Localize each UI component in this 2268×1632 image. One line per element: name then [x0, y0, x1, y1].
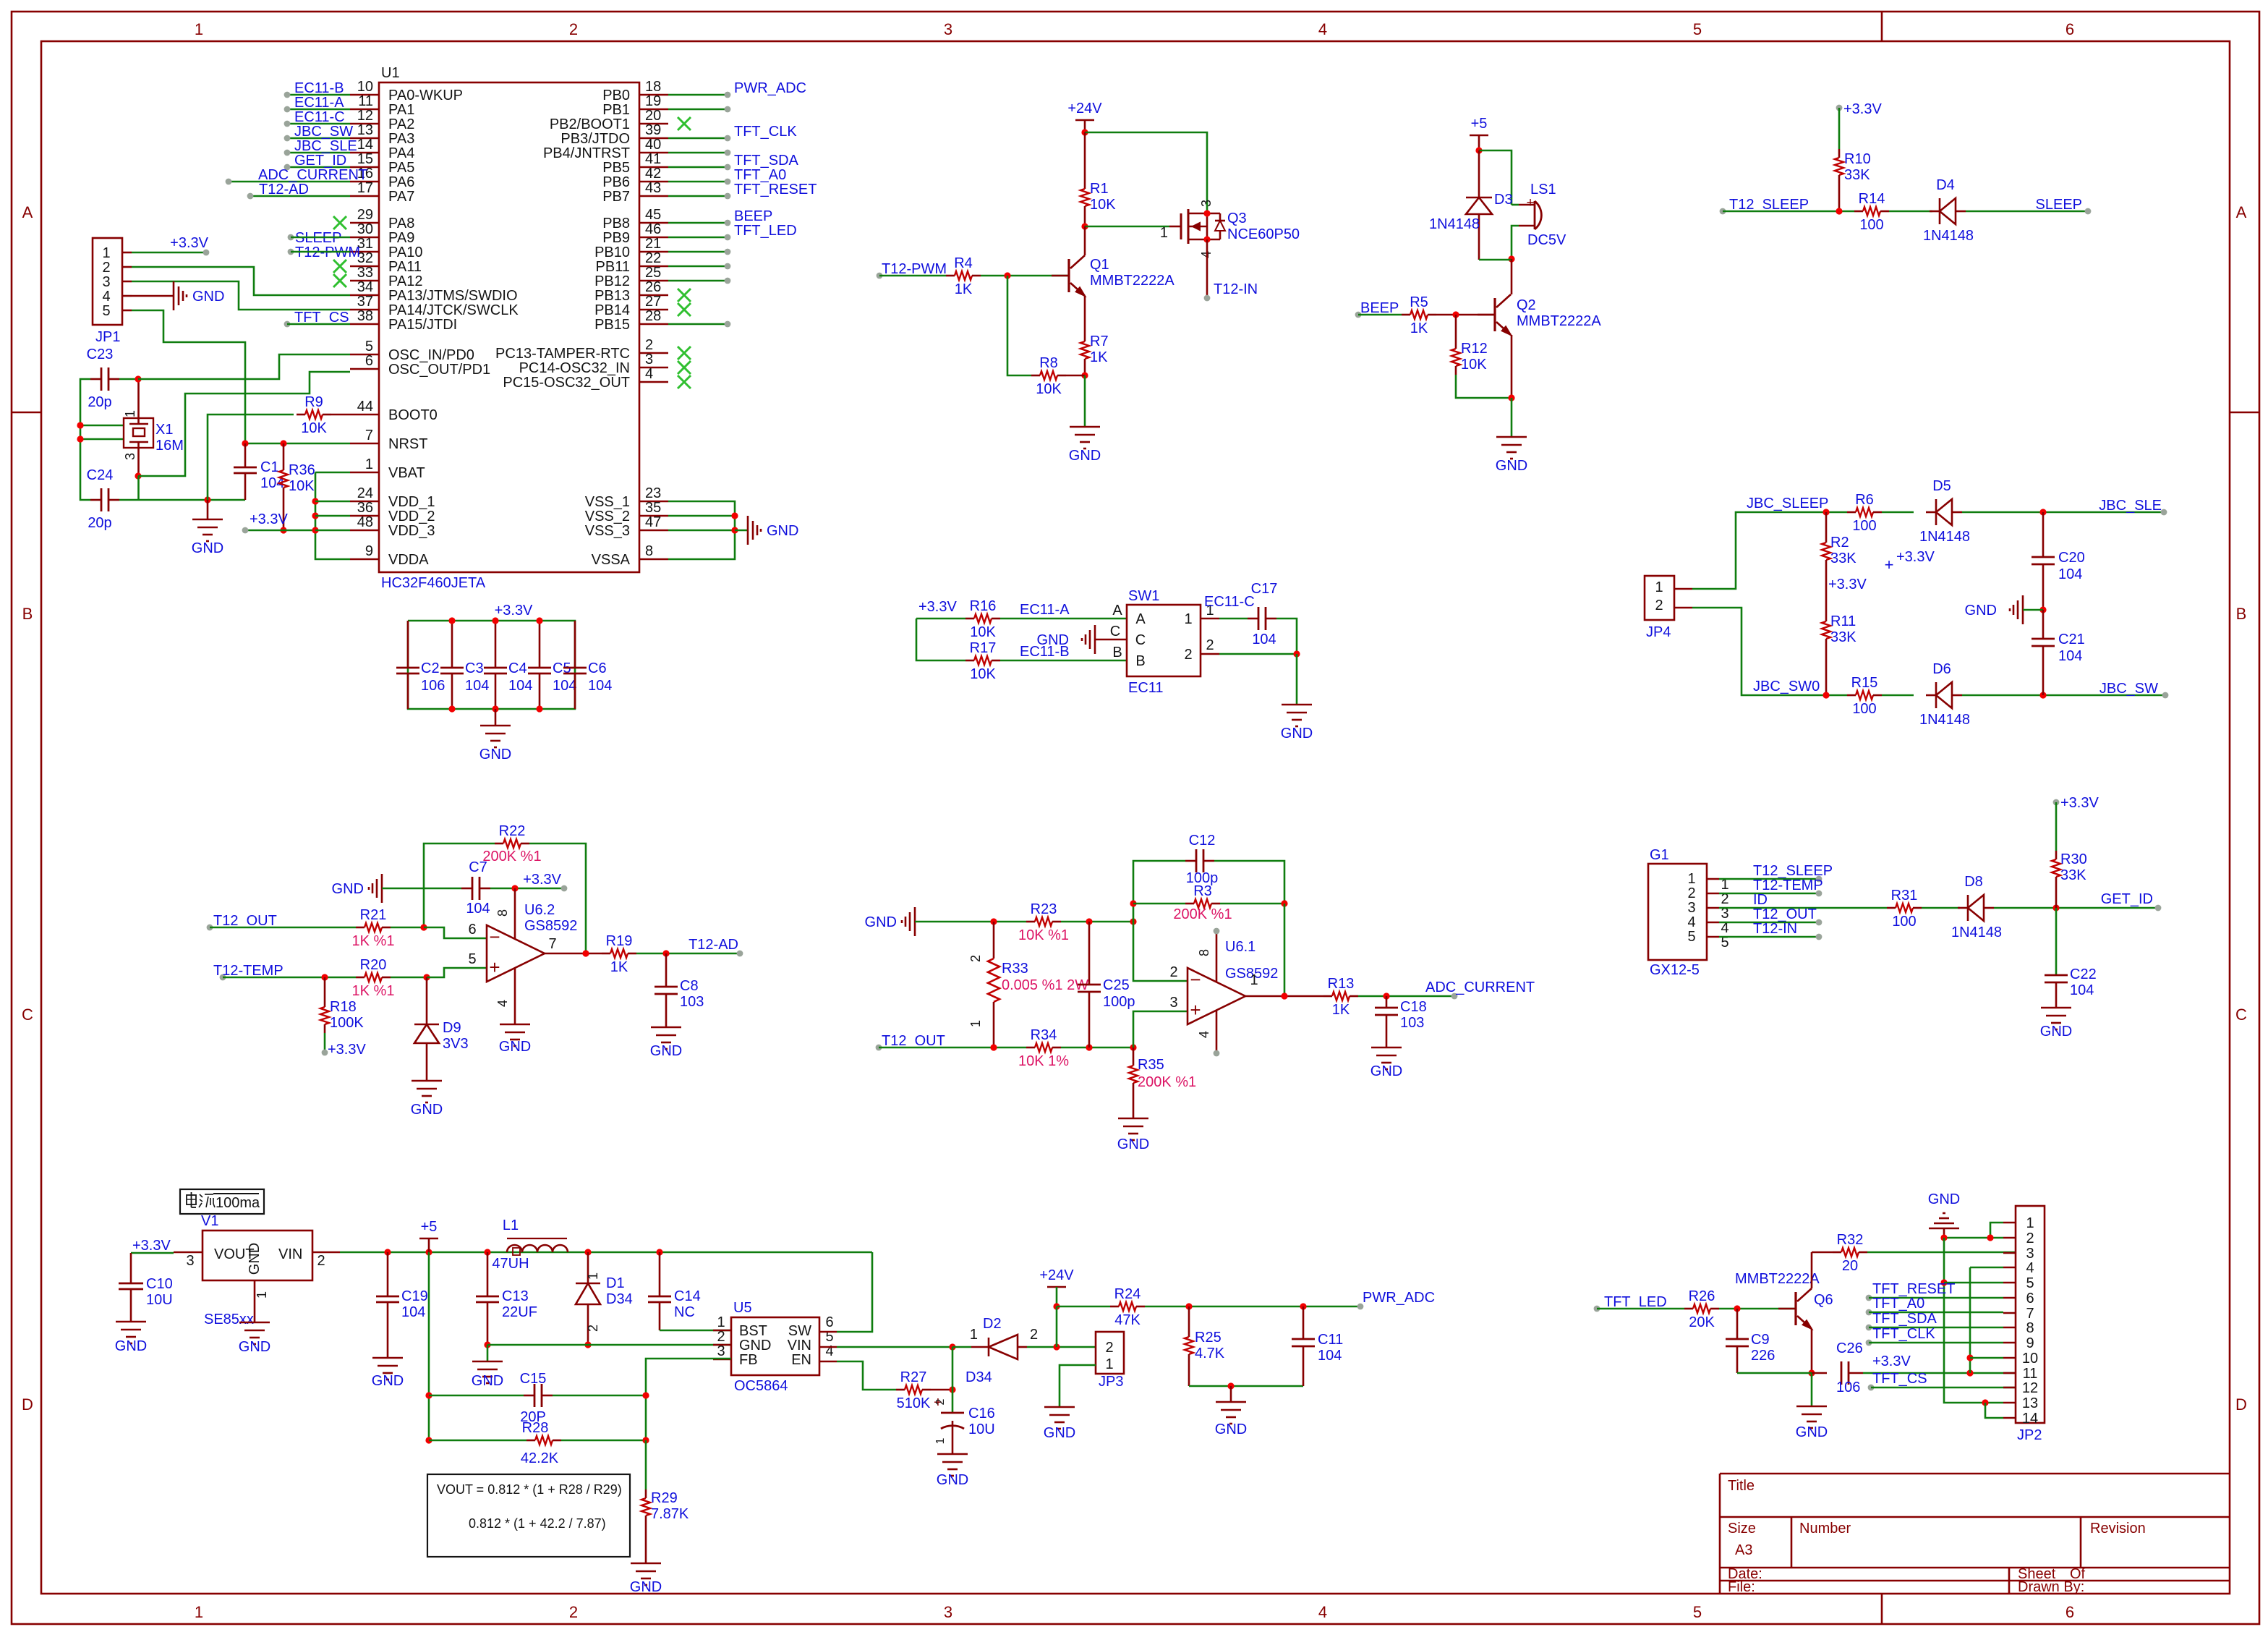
svg-text:R1: R1: [1090, 181, 1109, 197]
svg-text:TFT_LED: TFT_LED: [734, 223, 797, 239]
svg-text:1: 1: [717, 1314, 725, 1330]
wire R1 top: [1084, 132, 1086, 180]
junction noninverting node U6.1: [1130, 1044, 1136, 1050]
svg-text:1: 1: [255, 1291, 269, 1299]
svg-text:B: B: [2236, 605, 2247, 623]
svg-text:GND: GND: [1370, 1063, 1402, 1079]
svg-text:D34: D34: [965, 1369, 992, 1385]
svg-text:25: 25: [645, 265, 661, 281]
wire Q6 emitter to GND: [1811, 1373, 1813, 1406]
junction R36/+3.3V rail: [280, 527, 286, 533]
svg-text:PA11: PA11: [388, 259, 422, 275]
svg-text:V1: V1: [201, 1213, 218, 1229]
ground GND (R35): [1117, 1118, 1149, 1152]
speaker LS1 DC5V: [1519, 182, 1566, 248]
svg-text:7.87K: 7.87K: [651, 1506, 689, 1522]
wire GND stem SW1: [1296, 654, 1298, 705]
wire X1 pin3 down to ground rail: [137, 476, 140, 500]
svg-text:1: 1: [195, 20, 203, 38]
svg-text:A3: A3: [1735, 1542, 1752, 1558]
no-connect X on PA8: [333, 216, 346, 229]
svg-text:42.2K: 42.2K: [521, 1450, 559, 1466]
resistor R16: [965, 598, 1000, 640]
wire C23-C24 left rail: [80, 379, 90, 500]
svg-text:37: 37: [357, 294, 373, 310]
svg-text:R13: R13: [1328, 976, 1355, 992]
svg-text:33K: 33K: [2060, 867, 2086, 883]
svg-text:GND: GND: [115, 1338, 147, 1354]
svg-text:EC11: EC11: [1128, 680, 1164, 696]
svg-text:104: 104: [508, 678, 532, 694]
wire BOOT0 pulldown: [208, 415, 294, 500]
svg-text:PB11: PB11: [596, 259, 630, 275]
junction C15 left: [425, 1392, 432, 1398]
svg-text:6: 6: [825, 1314, 833, 1330]
net label T12-IN: [1204, 281, 1258, 301]
junction C8 tap: [662, 950, 669, 956]
svg-text:EC11-A: EC11-A: [294, 95, 344, 111]
svg-text:+3.3V: +3.3V: [918, 599, 957, 615]
wire X1 case pins: [80, 425, 124, 439]
net label TFT_SDA: [725, 153, 799, 170]
svg-text:10K: 10K: [289, 478, 315, 494]
svg-text:A: A: [1135, 611, 1146, 627]
wire Q6 collector to R32: [1812, 1252, 1833, 1288]
transistor Q2 MMBT2222A: [1478, 294, 1511, 335]
U1 pin 1 VBAT: [350, 456, 425, 481]
wire OSC_IN to crystal: [138, 354, 350, 379]
resistor R26: [1684, 1288, 1719, 1330]
ground GND (JP3): [1044, 1407, 1075, 1441]
no-connect X on PA12: [333, 274, 346, 287]
wire ground rail under crystal: [138, 499, 245, 501]
junction +5: [425, 1249, 432, 1255]
svg-text:103: 103: [680, 994, 704, 1010]
svg-text:PB6: PB6: [602, 174, 630, 190]
U6.2 pin 6 number: [468, 922, 476, 938]
wire Q1 collector: [1084, 226, 1086, 255]
wire ground stem: [207, 500, 209, 519]
svg-text:R35: R35: [1138, 1057, 1164, 1073]
wire R31 to D8: [1922, 907, 1960, 909]
wire to GND symbol: [735, 530, 748, 532]
svg-text:8: 8: [645, 543, 653, 559]
svg-text:3: 3: [1199, 200, 1214, 207]
junction X1 case pin lower: [77, 435, 83, 442]
wire SW to top rail: [837, 1252, 872, 1332]
svg-text:TFT_CS: TFT_CS: [1872, 1371, 1927, 1387]
wire R2 top: [1825, 512, 1828, 534]
ground GND (U6.2 pin4): [499, 1024, 531, 1055]
svg-text:7: 7: [548, 936, 556, 952]
transistor-free region marker: [0, 0, 1, 1]
svg-text:PA4: PA4: [388, 145, 414, 161]
svg-text:NCE60P50: NCE60P50: [1227, 226, 1300, 242]
buck converter U5 OC5864: [713, 1300, 837, 1394]
svg-text:33K: 33K: [1830, 551, 1856, 566]
svg-text:103: 103: [1400, 1015, 1424, 1031]
wire inverting node to pin 2: [1133, 904, 1188, 981]
svg-text:2: 2: [645, 337, 653, 353]
junction Q1 base node: [1004, 272, 1010, 279]
terminal dot: [725, 278, 731, 284]
U1 pin 30 PA9: [350, 221, 414, 246]
net label JBC_SLEEP: [1747, 496, 1828, 511]
wire R9 to BOOT0 pin: [331, 414, 350, 416]
resistor R5: [1402, 294, 1436, 336]
svg-text:5: 5: [468, 951, 476, 967]
resistor R9: [297, 394, 331, 436]
svg-text:18: 18: [645, 79, 661, 95]
capacitor C21: [2032, 610, 2085, 695]
svg-text:FB: FB: [739, 1352, 758, 1368]
svg-text:C: C: [22, 1006, 33, 1024]
svg-text:38: 38: [357, 308, 373, 324]
svg-text:4: 4: [1687, 914, 1695, 930]
svg-text:510K: 510K: [897, 1395, 931, 1411]
svg-text:2: 2: [1687, 885, 1695, 901]
junction R33 bottom: [990, 1044, 997, 1050]
capacitor C13: [476, 1252, 537, 1345]
svg-text:1: 1: [1687, 871, 1695, 887]
junction C25 top: [1086, 918, 1092, 925]
svg-text:PB2/BOOT1: PB2/BOOT1: [550, 116, 630, 132]
wire VIN: [837, 1346, 952, 1348]
svg-text:BEEP: BEEP: [734, 208, 772, 224]
svg-text:D5: D5: [1932, 478, 1951, 494]
wire T12_OUT row: [879, 1047, 1026, 1049]
svg-text:12: 12: [2022, 1380, 2038, 1396]
transistor Q6 MMBT2222A: [1778, 1288, 1812, 1329]
svg-text:EC11-A: EC11-A: [1020, 602, 1070, 618]
wire TFT_CLK to pin9: [1869, 1342, 2003, 1344]
wire VBAT: [315, 472, 350, 474]
svg-text:JBC_SLEEP: JBC_SLEEP: [1747, 496, 1828, 511]
wire unnamed net: [668, 152, 728, 154]
wire JP3 pin1 to GND: [1060, 1365, 1096, 1407]
diode D6: [1919, 661, 1970, 728]
svg-text:1K: 1K: [955, 281, 973, 297]
resistor R22 (feedback): [482, 823, 541, 864]
resistor R2: [1822, 534, 1856, 569]
svg-text:R7: R7: [1090, 333, 1109, 349]
wire net T12-AD: [250, 195, 350, 197]
power +24V (JP3): [1039, 1267, 1074, 1287]
wire to pin14: [1985, 1403, 2003, 1418]
terminal dot G1 pin5: [1816, 934, 1822, 940]
ground symbol sideways (U6.1): [865, 907, 915, 936]
junction C20/C21/GND: [2039, 606, 2046, 613]
svg-text:100K: 100K: [330, 1015, 364, 1031]
svg-text:19: 19: [645, 93, 661, 109]
wire C7 to +3.3V: [490, 888, 564, 890]
svg-text:D: D: [22, 1395, 33, 1414]
svg-text:104: 104: [401, 1304, 425, 1320]
svg-text:+: +: [1885, 556, 1894, 574]
net label PWR_ADC: [1357, 1290, 1435, 1309]
wire +3.3V vertical: [1969, 1267, 1971, 1373]
junction Q3 drain pin3: [1203, 210, 1210, 216]
U1 pin 12 PA2: [350, 108, 414, 132]
diode D5: [1919, 478, 1970, 545]
svg-text:+24V: +24V: [1039, 1267, 1074, 1283]
U1 pin 27 PB14: [594, 294, 668, 318]
wire R22 right to output: [529, 843, 586, 953]
wire TFT_CS to JP2 pin12: [1871, 1387, 2016, 1389]
ground GND (JP2) flipped: [1928, 1191, 1960, 1238]
net label T12_OUT: [207, 913, 277, 930]
svg-text:3: 3: [2026, 1246, 2034, 1262]
svg-text:GND: GND: [1928, 1191, 1960, 1207]
svg-text:C26: C26: [1836, 1340, 1863, 1356]
svg-text:104: 104: [2058, 566, 2082, 582]
svg-text:2: 2: [717, 1329, 725, 1345]
svg-text:JP2: JP2: [2017, 1427, 2042, 1443]
junction pin10: [1966, 1354, 1973, 1361]
U1 pin 17 PA7: [350, 180, 414, 205]
svg-text:+3.3V: +3.3V: [2060, 795, 2099, 811]
svg-text:U1: U1: [381, 65, 400, 81]
svg-text:Number: Number: [1799, 1521, 1851, 1537]
svg-text:4: 4: [1318, 1603, 1327, 1621]
net label TFT_A0 (JP2): [1866, 1296, 1925, 1315]
svg-text:1: 1: [1655, 579, 1663, 595]
net label BEEP: [725, 208, 773, 226]
svg-text:34: 34: [357, 279, 373, 295]
svg-text:PB13: PB13: [594, 288, 630, 304]
svg-text:3: 3: [1687, 900, 1695, 916]
ground GND (V1): [239, 1322, 270, 1355]
svg-text:VDDA: VDDA: [388, 552, 429, 568]
wire VDD_2: [315, 515, 350, 517]
wire net EC11-A: [287, 109, 350, 111]
svg-text:GND: GND: [1037, 632, 1069, 648]
resistor R35: [1129, 1047, 1196, 1092]
resistor R18: [320, 998, 364, 1033]
svg-text:7: 7: [2026, 1306, 2034, 1322]
wire net TFT_LED: [668, 237, 728, 239]
wire EN to R27: [837, 1361, 896, 1390]
svg-text:106: 106: [1836, 1380, 1860, 1395]
wire SW1 pin2: [1219, 653, 1297, 655]
U1 pin 47 VSS_3: [585, 514, 668, 539]
svg-text:EN: EN: [791, 1352, 811, 1368]
U1 pin 29 PA8: [350, 207, 414, 231]
svg-text:1: 1: [934, 1437, 947, 1444]
svg-text:1N4148: 1N4148: [1919, 712, 1970, 728]
resistor R27: [896, 1369, 931, 1411]
resistor R17: [965, 640, 1000, 682]
svg-text:B: B: [1112, 645, 1122, 660]
svg-text:+5: +5: [421, 1219, 438, 1235]
svg-text:10K: 10K: [1090, 197, 1116, 213]
svg-text:VDD_2: VDD_2: [388, 509, 435, 524]
svg-text:12: 12: [357, 108, 373, 124]
svg-text:G1: G1: [1650, 847, 1669, 863]
U1 pin 13 PA3: [350, 122, 414, 147]
svg-text:X1: X1: [155, 422, 173, 438]
U1 pin 22 PB11: [596, 250, 668, 275]
svg-text:D2: D2: [983, 1316, 1002, 1332]
svg-text:−: −: [1190, 969, 1201, 990]
svg-text:100ma: 100ma: [216, 1195, 260, 1211]
svg-text:35: 35: [645, 500, 661, 516]
wire JP2 pin1 to gnd net: [1990, 1223, 2003, 1238]
U6.1 pin 3 number: [1169, 995, 1177, 1011]
svg-text:5: 5: [1693, 1603, 1702, 1621]
wire Q6 emitter down: [1811, 1329, 1813, 1373]
junction gnd tap: [1227, 1382, 1234, 1389]
svg-text:Q1: Q1: [1090, 257, 1109, 273]
wire unnamed net: [668, 280, 728, 282]
svg-text:VIN: VIN: [278, 1246, 302, 1262]
net label T12-PWM: [877, 261, 947, 279]
svg-text:6: 6: [2065, 20, 2074, 38]
svg-text:PA12: PA12: [388, 273, 422, 289]
wire FB to divider: [646, 1359, 731, 1440]
svg-text:2: 2: [1655, 598, 1663, 613]
wire OSC_OUT to crystal: [138, 372, 350, 476]
svg-text:13: 13: [2022, 1395, 2038, 1411]
svg-text:MMBT2222A: MMBT2222A: [1090, 273, 1174, 289]
svg-text:VSSA: VSSA: [592, 552, 631, 568]
svg-text:Size: Size: [1728, 1521, 1756, 1537]
wire C15 left lead: [429, 1395, 524, 1397]
svg-text:D1: D1: [606, 1275, 625, 1291]
svg-text:3: 3: [645, 352, 653, 367]
wire R20 to node: [391, 977, 427, 979]
resistor R12: [1451, 340, 1488, 375]
svg-text:1: 1: [1160, 225, 1168, 241]
svg-text:11: 11: [358, 93, 373, 109]
terminal dot: [725, 321, 731, 328]
svg-text:+: +: [489, 956, 500, 978]
U1 pin 20 PB2/BOOT1: [550, 108, 668, 132]
svg-text:1: 1: [1105, 1356, 1113, 1372]
resistor R32: [1833, 1232, 1867, 1274]
U1 pin 39 PB3/JTDO: [560, 122, 668, 147]
wire +3.3V to R17: [916, 619, 965, 660]
connector G1 GX12-5: [1648, 847, 1729, 978]
svg-text:JBC_SW: JBC_SW: [294, 124, 353, 140]
resistor R20: [352, 957, 395, 999]
transistor Q3 NCE60P50 (PMOS): [1160, 200, 1300, 258]
net label TFT_A0: [725, 167, 787, 184]
svg-text:6: 6: [2065, 1603, 2074, 1621]
power +3.3V label (JP2): [1872, 1353, 1911, 1369]
wire C23 to X1 pin1: [119, 378, 138, 381]
wire VSS_2: [668, 515, 735, 517]
resistor R14: [1854, 191, 1889, 233]
svg-text:ID: ID: [1753, 892, 1768, 908]
svg-text:20p: 20p: [88, 515, 111, 531]
svg-text:PB7: PB7: [602, 189, 630, 205]
resistor R13: [1323, 976, 1358, 1018]
power +24V (Q1): [1067, 101, 1102, 120]
capacitor C4: [484, 621, 532, 709]
note box current 100ma: [180, 1189, 264, 1214]
wire unnamed net: [668, 251, 728, 253]
svg-text:104: 104: [2058, 648, 2082, 664]
junction R7/R8/GND: [1081, 372, 1088, 378]
net label BEEP: [1355, 300, 1399, 318]
svg-text:6: 6: [2026, 1291, 2034, 1306]
svg-text:Q3: Q3: [1227, 211, 1247, 226]
svg-text:13: 13: [357, 122, 373, 138]
ground GND (R29): [630, 1563, 662, 1595]
net label EC11-B: [1020, 644, 1070, 660]
wire R1 bottom to gate node: [1084, 215, 1086, 226]
resistor R31: [1887, 888, 1922, 930]
svg-text:5: 5: [2026, 1275, 2034, 1291]
wire T12_SLEEP: [1723, 211, 1854, 213]
junction +5 node: [1475, 147, 1482, 153]
net label T12-PWM (PA10): [288, 245, 360, 260]
svg-text:R32: R32: [1837, 1232, 1864, 1248]
svg-text:10: 10: [357, 79, 373, 95]
wire +5 stem: [428, 1238, 430, 1252]
svg-text:C24: C24: [87, 467, 114, 483]
U1 pin 45 PB8: [602, 207, 668, 231]
inductor L1 47UH: [492, 1217, 568, 1272]
svg-text:30: 30: [357, 221, 373, 237]
wire gate drive: [1085, 226, 1169, 228]
svg-text:File:: File:: [1728, 1579, 1755, 1595]
junction +24V node: [1081, 129, 1088, 135]
svg-text:20: 20: [645, 108, 661, 124]
svg-text:C14: C14: [674, 1288, 701, 1304]
svg-text:GND: GND: [1069, 448, 1101, 464]
junction R23/R33: [990, 918, 997, 925]
terminal dot: [725, 263, 731, 270]
wire T12-PWM to R4: [879, 275, 946, 277]
svg-text:+3.3V: +3.3V: [132, 1238, 171, 1254]
svg-text:TFT_RESET: TFT_RESET: [1872, 1281, 1955, 1297]
net label TFT_SDA (JP2): [1866, 1311, 1937, 1330]
junction VDD_1: [312, 498, 318, 504]
svg-text:1: 1: [1184, 611, 1192, 627]
svg-text:GND: GND: [865, 914, 897, 930]
capacitor C8: [655, 953, 704, 1027]
svg-text:HC32F460JETA: HC32F460JETA: [381, 575, 486, 591]
svg-text:BOOT0: BOOT0: [388, 407, 438, 423]
power +3.3V (R30): [2053, 795, 2099, 811]
svg-text:R36: R36: [289, 462, 315, 478]
svg-text:1: 1: [365, 456, 373, 472]
svg-text:D8: D8: [1964, 874, 1983, 890]
svg-text:104: 104: [466, 901, 490, 917]
svg-text:PC13-TAMPER-RTC: PC13-TAMPER-RTC: [495, 346, 630, 362]
wire R23 to node: [1061, 921, 1133, 923]
terminal dot G1 pin2: [1816, 891, 1822, 897]
wire Q2 emitter: [1511, 335, 1513, 398]
svg-text:OSC_OUT/PD1: OSC_OUT/PD1: [388, 362, 490, 378]
svg-text:2: 2: [2026, 1231, 2034, 1246]
svg-text:14: 14: [357, 137, 373, 153]
junction Q2 base/R12: [1452, 311, 1459, 318]
svg-text:TFT_A0: TFT_A0: [1872, 1296, 1924, 1312]
wire SW1 pin1 to C17: [1219, 618, 1248, 620]
ground GND (C19): [372, 1358, 404, 1389]
wire GND to R23: [915, 921, 1026, 923]
svg-text:T12_OUT: T12_OUT: [1753, 906, 1817, 922]
svg-text:NRST: NRST: [388, 436, 427, 452]
svg-text:27: 27: [645, 294, 661, 310]
wire JP1 pin4 to GND: [132, 295, 174, 297]
wire R14 to D4: [1889, 211, 1932, 213]
svg-text:GND: GND: [192, 289, 224, 305]
svg-text:PC14-OSC32_IN: PC14-OSC32_IN: [519, 360, 630, 376]
